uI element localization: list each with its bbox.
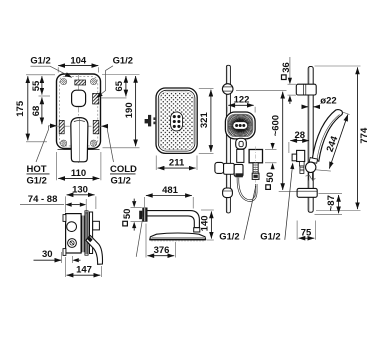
svg-text:G1/2: G1/2	[27, 175, 47, 186]
flange inlet pin	[139, 211, 142, 220]
svg-text:74 - 88: 74 - 88	[28, 194, 58, 205]
svg-text:140: 140	[200, 215, 211, 231]
label square-50	[122, 209, 133, 226]
svg-text:190: 190	[124, 102, 135, 118]
handshower handle	[237, 149, 244, 162]
dim 75 line	[299, 237, 315, 239]
screw bottom-right	[91, 140, 97, 146]
right rail tube	[308, 67, 313, 213]
rain head inner rim	[158, 90, 195, 151]
dim 481 extension lines	[145, 197, 194, 209]
rain head center plate	[171, 112, 183, 131]
hose connector nut	[252, 173, 259, 179]
svg-text:175: 175	[15, 100, 26, 117]
rain head outer shell	[156, 88, 197, 153]
elbow nub	[292, 154, 297, 161]
plate center horizontal dash-dot line	[53, 125, 104, 127]
dia-22 dim arrows	[303, 106, 309, 108]
dim 28 extension line	[288, 142, 290, 153]
label square-36	[281, 62, 292, 79]
elbow outlet nipple	[300, 162, 305, 167]
middle rail tube	[226, 65, 230, 213]
side inlet connector	[148, 115, 151, 127]
screw bottom-left	[61, 140, 67, 146]
wand inner line	[317, 115, 340, 161]
dim 147 extension lines	[65, 257, 101, 277]
dim 74-88 right extension line	[85, 199, 87, 214]
svg-text:110: 110	[71, 168, 86, 179]
wand end nut	[309, 158, 317, 164]
handshower neck	[236, 138, 247, 149]
holder body on rail	[224, 163, 235, 174]
leader diagonal from flange	[136, 217, 143, 257]
middle rail top bracket knob	[222, 84, 233, 95]
holder clamp ring	[234, 164, 243, 176]
dim 175 line	[27, 76, 29, 140]
SECTION: right rail	[281, 57, 370, 240]
leader COLD to right port	[101, 126, 113, 162]
arm collar nut	[194, 228, 200, 232]
dim ~87 extension lines	[315, 194, 343, 215]
dim 75 extension lines	[297, 221, 316, 240]
svg-text:~600: ~600	[271, 115, 282, 136]
screw top-right	[91, 79, 97, 85]
svg-text:COLD: COLD	[110, 164, 137, 175]
supply box threaded nipple	[253, 163, 258, 173]
wall escutcheon flange	[142, 208, 147, 222]
SECTION: mixer front view	[15, 54, 140, 185]
left extension lines	[26, 75, 55, 142]
SECTION: rain head front	[145, 88, 214, 170]
dim ~600 line	[282, 92, 284, 190]
dim 376 line	[147, 255, 174, 257]
dim 147 line	[67, 274, 101, 276]
right extension lines	[101, 75, 140, 148]
dim 376 extension lines	[146, 224, 176, 258]
lever inner contour	[74, 120, 85, 123]
square-50 mid extension lines	[265, 150, 277, 163]
left side port (hatched)	[59, 120, 64, 133]
dim 74-88 line with outward arrows	[20, 204, 64, 206]
dim 774 line	[357, 67, 359, 209]
svg-text:G1/2: G1/2	[113, 54, 133, 65]
middle rail bottom bracket knob	[223, 188, 233, 198]
leader G1/2 top-right to right port	[96, 66, 113, 98]
svg-text:G1/2: G1/2	[30, 54, 50, 65]
svg-text:774: 774	[359, 127, 370, 144]
trim plate outline	[57, 74, 101, 149]
dim 774 extension lines	[315, 66, 361, 211]
dim 481 line	[146, 195, 192, 197]
shower arm with elbow	[148, 211, 200, 228]
leader G1/2 top-left to top port	[31, 66, 72, 77]
SECTION: middle rail handshower	[215, 65, 316, 241]
central function square	[72, 90, 86, 106]
dim ~87 line	[338, 195, 340, 213]
dim 140 line	[210, 211, 212, 238]
right outlet tab	[93, 221, 100, 230]
dim 244 line	[329, 114, 348, 168]
square-50 dim lower arrow	[132, 222, 136, 228]
SECTION: mixer side view	[20, 184, 102, 277]
top inlet port (hatched)	[75, 80, 86, 85]
dim 122 extension lines	[227, 107, 255, 113]
pill dots	[235, 124, 245, 127]
body small double circle	[68, 239, 77, 248]
square-36 extension lines	[288, 84, 297, 95]
plate center vertical dash-dot line	[78, 74, 80, 163]
body top-left tab	[63, 215, 66, 222]
leader G1/2 first to supply connector	[244, 186, 256, 240]
dim 68 line	[41, 97, 43, 124]
svg-text:122: 122	[234, 95, 250, 106]
svg-text:147: 147	[76, 264, 92, 275]
dim 190 line	[135, 76, 137, 146]
dim 211 extension lines	[156, 156, 197, 171]
holder knob	[215, 162, 224, 173]
svg-text:G1/2: G1/2	[111, 175, 131, 186]
svg-text:376: 376	[154, 245, 170, 256]
square-36 dim upper arrow	[289, 57, 291, 79]
svg-text:211: 211	[169, 158, 185, 169]
rain head nozzle dot field	[160, 92, 194, 150]
body bottom-left tab	[63, 249, 66, 256]
hose nut	[235, 173, 242, 177]
screw top-left	[61, 79, 67, 85]
SECTION: wall arm	[122, 185, 214, 258]
dim 211 line	[158, 167, 196, 169]
svg-text:50: 50	[122, 209, 133, 220]
svg-text:HOT: HOT	[27, 164, 47, 175]
square-36 dim lower arrow	[288, 95, 292, 101]
svg-text:481: 481	[162, 185, 179, 196]
supply box centerline	[255, 147, 257, 199]
square-50 mid dim arrows	[272, 142, 274, 145]
svg-text:30: 30	[42, 249, 53, 260]
center plate dots	[173, 115, 181, 128]
dim 28 line	[290, 140, 309, 142]
wall supply box	[249, 150, 262, 163]
dim 55 line	[41, 76, 43, 94]
dim 30 extension lines	[62, 252, 73, 263]
handshower head outer	[225, 112, 255, 139]
dim 321 line	[210, 90, 212, 152]
valve body box	[66, 214, 82, 253]
hose below ball with break	[308, 172, 312, 180]
dim 130 extension lines	[65, 196, 96, 212]
wand curved blade	[312, 110, 342, 162]
head profile side view	[150, 233, 206, 240]
label square-50 mid	[265, 172, 276, 189]
svg-text:~87: ~87	[326, 195, 337, 211]
trim plate edge slab	[90, 212, 93, 254]
wall elbow box	[297, 150, 305, 161]
dim 110 line	[58, 177, 99, 179]
lever handle side view	[86, 236, 103, 265]
svg-text:55: 55	[31, 80, 42, 91]
leader G1/2 second to right elbow	[285, 169, 292, 240]
head profile bottom face	[150, 239, 206, 241]
dim 244 extension ticks	[316, 112, 350, 171]
dim 130 line	[67, 194, 95, 196]
svg-text:ø22: ø22	[320, 96, 336, 107]
svg-text:104: 104	[70, 56, 87, 67]
handshower center pill	[233, 122, 247, 129]
svg-text:65: 65	[114, 80, 125, 91]
dim 30 arrows	[34, 259, 62, 261]
right rail top bracket	[296, 84, 316, 95]
dim ~600 extension lines	[236, 90, 316, 191]
svg-text:G1/2: G1/2	[260, 231, 280, 242]
lever base dark nut	[87, 237, 92, 243]
right rail lower bracket	[297, 188, 317, 197]
leader HOT to left port	[36, 126, 57, 162]
dim 104 line	[58, 65, 98, 67]
ball joint holder	[306, 162, 316, 172]
svg-text:130: 130	[72, 184, 88, 195]
svg-text:28: 28	[295, 130, 306, 141]
right side port (hatched)	[93, 120, 99, 133]
svg-text:68: 68	[31, 106, 42, 117]
dim 104 extension lines	[57, 67, 59, 72]
plate bottom lip lines	[58, 149, 100, 151]
hose loop	[238, 177, 256, 200]
svg-text:G1/2: G1/2	[219, 231, 239, 242]
lever handle	[71, 118, 88, 162]
head profile nozzle teeth	[152, 240, 203, 241]
right outlet port (hatched)	[93, 93, 99, 104]
body big circle	[67, 222, 77, 232]
svg-text:75: 75	[301, 227, 312, 238]
dim 65 line	[125, 76, 127, 96]
dim 140 extension lines	[201, 210, 214, 240]
dim 122 line	[228, 104, 253, 106]
svg-text:50: 50	[265, 172, 276, 183]
svg-text:321: 321	[199, 112, 210, 129]
square-50 extension lines	[131, 208, 142, 222]
handshower neck ring hole	[239, 141, 243, 146]
square-50 dim upper arrow	[132, 201, 136, 207]
adjustable depth striped zone	[82, 212, 87, 254]
dim 110 extension lines	[57, 152, 101, 180]
dim 321 extension lines	[199, 88, 214, 153]
plate inner dashed rough-in outline	[59, 77, 98, 146]
